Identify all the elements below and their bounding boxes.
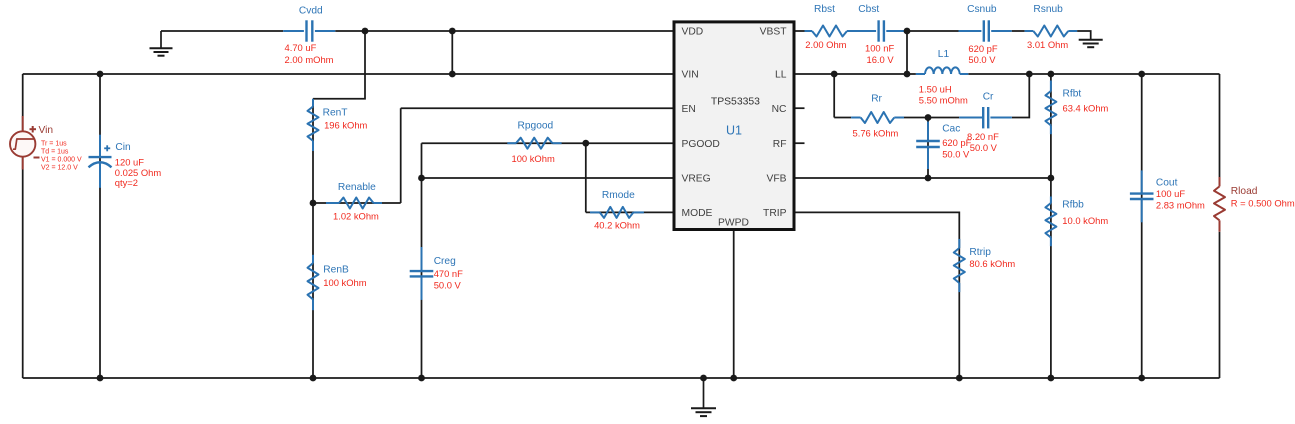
junction at (834.2,74) bbox=[831, 71, 838, 78]
ground bottom center bbox=[703, 378, 705, 408]
wire VBST stub from IC bbox=[796, 30, 805, 32]
wire Cbst-to-LL vertical link bbox=[906, 31, 908, 74]
wire EN riser bbox=[400, 108, 402, 203]
wire black segment between Csnub and Rsnub bbox=[1012, 30, 1025, 32]
wire VBST net black segment after Cbst bbox=[905, 30, 959, 32]
svg-text:Cbst: Cbst bbox=[858, 4, 879, 15]
svg-text:Rtrip: Rtrip bbox=[969, 247, 991, 258]
junction at (100,378) bbox=[97, 375, 104, 382]
svg-text:V1 = 0.000 V: V1 = 0.000 V bbox=[41, 156, 82, 163]
svg-text:3.01 Ohm: 3.01 Ohm bbox=[1027, 39, 1068, 50]
svg-text:Tr = 1us: Tr = 1us bbox=[41, 141, 67, 148]
svg-text:qty=2: qty=2 bbox=[115, 177, 138, 188]
svg-text:Csnub: Csnub bbox=[967, 4, 997, 15]
wire RF stub bbox=[796, 142, 805, 144]
resistor Rload bbox=[1219, 177, 1221, 186]
svg-text:50.0 V: 50.0 V bbox=[970, 142, 998, 153]
wire Rr row middle black bbox=[904, 117, 959, 119]
wire NC stub bbox=[796, 107, 805, 109]
svg-text:Cac: Cac bbox=[942, 124, 960, 135]
capacitor Cvdd bbox=[283, 30, 304, 32]
resistor Rbst bbox=[805, 30, 813, 32]
capacitor Cr bbox=[959, 117, 982, 119]
svg-text:L1: L1 bbox=[938, 49, 950, 60]
svg-text:VIN: VIN bbox=[682, 70, 699, 81]
junction at (1029.3,74) bbox=[1026, 71, 1033, 78]
resistor Rmode bbox=[590, 211, 600, 213]
svg-text:196 kOhm: 196 kOhm bbox=[324, 120, 367, 131]
svg-text:50.0 V: 50.0 V bbox=[942, 148, 970, 159]
voltage source Vin bbox=[22, 116, 24, 131]
wire ground bottom rail bbox=[23, 377, 1220, 379]
wire Creg branch vertical bbox=[421, 143, 423, 378]
svg-text:Cr: Cr bbox=[983, 92, 994, 103]
wire Rload right branch lower bbox=[1219, 232, 1221, 378]
svg-text:RF: RF bbox=[773, 139, 787, 150]
capacitor Cbst bbox=[886, 30, 905, 32]
svg-text:VDD: VDD bbox=[682, 27, 704, 38]
resistor Rtrip bbox=[958, 239, 960, 248]
svg-text:VFB: VFB bbox=[766, 174, 786, 185]
capacitor Creg bbox=[421, 247, 423, 271]
svg-text:50.0 V: 50.0 V bbox=[968, 54, 996, 65]
wire Rmode riser bbox=[585, 143, 587, 212]
junction at (1050.9,378) bbox=[1048, 375, 1055, 382]
svg-text:100 kOhm: 100 kOhm bbox=[512, 153, 555, 164]
junction at (928,178) bbox=[925, 175, 932, 182]
wire Rfbt/Rfbb branch vertical bbox=[1050, 74, 1052, 378]
wire Cin branch vertical bbox=[99, 74, 101, 378]
svg-text:RenB: RenB bbox=[323, 264, 349, 275]
resistor RenB bbox=[312, 255, 314, 263]
svg-text:U1: U1 bbox=[726, 123, 742, 137]
svg-text:R = 0.500 Ohm: R = 0.500 Ohm bbox=[1231, 198, 1295, 209]
junction at (1141.7,74) bbox=[1138, 71, 1145, 78]
wire PWPD drop to ground rail bbox=[733, 231, 735, 378]
svg-text:V2 = 12.0 V: V2 = 12.0 V bbox=[41, 164, 78, 171]
svg-text:470 nF: 470 nF bbox=[434, 268, 463, 279]
resistor Renable bbox=[326, 202, 339, 204]
wire EN net to IC bbox=[401, 107, 673, 109]
resistor Rfbb bbox=[1050, 197, 1052, 204]
svg-text:Rr: Rr bbox=[871, 93, 882, 104]
junction at (907,31) bbox=[904, 28, 911, 35]
wire Rload right branch upper bbox=[1219, 74, 1221, 177]
label Vin minus sign bbox=[34, 157, 40, 159]
wire TRIP net with corner down to Rtrip bbox=[796, 212, 960, 378]
junction at (365,31) bbox=[362, 28, 369, 35]
wire LL net rail right of L1 bbox=[968, 73, 1219, 75]
wire VFB net rail bbox=[796, 177, 1051, 179]
svg-text:EN: EN bbox=[682, 104, 696, 115]
svg-text:PGOOD: PGOOD bbox=[682, 139, 720, 150]
svg-text:40.2 kOhm: 40.2 kOhm bbox=[594, 220, 640, 231]
junction at (585.8,143.2) bbox=[582, 140, 589, 147]
svg-text:2.83 mOhm: 2.83 mOhm bbox=[1156, 199, 1205, 210]
svg-text:620 pF: 620 pF bbox=[942, 137, 971, 148]
wire Cr to riser and up to LL rail bbox=[1012, 74, 1029, 118]
resistor Rpgood bbox=[507, 142, 516, 144]
label Vin plus sign bbox=[30, 128, 37, 130]
svg-text:620 pF: 620 pF bbox=[968, 43, 997, 54]
svg-text:5.76 kOhm: 5.76 kOhm bbox=[853, 128, 899, 139]
wire RenT drop from VDD rail with jog bbox=[313, 31, 365, 99]
resistor Rfbt bbox=[1050, 81, 1052, 92]
svg-text:Td = 1us: Td = 1us bbox=[41, 149, 69, 156]
svg-text:1.50 uH: 1.50 uH bbox=[919, 84, 952, 95]
resistor Rsnub bbox=[1025, 30, 1034, 32]
svg-text:120 uF: 120 uF bbox=[115, 157, 144, 168]
svg-text:63.4 kOhm: 63.4 kOhm bbox=[1063, 103, 1109, 114]
wire VDD-to-VIN vertical link bbox=[451, 31, 453, 74]
svg-text:2.00 mOhm: 2.00 mOhm bbox=[285, 54, 334, 65]
svg-text:8.20 nF: 8.20 nF bbox=[967, 131, 999, 142]
junction at (907,74) bbox=[904, 71, 911, 78]
wire MODE net to IC bbox=[586, 211, 673, 213]
wire from Rsnub to ground bbox=[1077, 31, 1091, 40]
svg-text:TPS53353: TPS53353 bbox=[711, 97, 760, 108]
wire Rr drop from LL rail bbox=[833, 74, 835, 118]
capacitor Csnub bbox=[959, 30, 982, 32]
svg-text:Rfbb: Rfbb bbox=[1062, 199, 1084, 210]
junction at (421.5,378) bbox=[418, 375, 425, 382]
svg-text:VREG: VREG bbox=[682, 174, 711, 185]
svg-text:Renable: Renable bbox=[338, 182, 376, 193]
svg-text:Cvdd: Cvdd bbox=[299, 6, 323, 17]
svg-text:1.02 kOhm: 1.02 kOhm bbox=[333, 210, 379, 221]
junction at (452.3,31) bbox=[449, 28, 456, 35]
junction at (1050.9,178) bbox=[1048, 175, 1055, 182]
svg-text:Rfbt: Rfbt bbox=[1063, 89, 1082, 100]
resistor RenT bbox=[312, 99, 314, 107]
svg-text:Vin: Vin bbox=[39, 125, 54, 136]
svg-text:2.00 Ohm: 2.00 Ohm bbox=[805, 39, 846, 50]
wire left source branch vertical bbox=[22, 74, 24, 378]
junction at (1050.9,74) bbox=[1048, 71, 1055, 78]
svg-text:16.0 V: 16.0 V bbox=[867, 54, 895, 65]
junction at (703.5,378) bbox=[700, 375, 707, 382]
ground top-right after Rsnub bbox=[1079, 39, 1103, 41]
svg-text:Rmode: Rmode bbox=[602, 190, 635, 201]
capacitor Cac bbox=[927, 122, 929, 140]
wire Cac branch vertical bbox=[927, 118, 929, 179]
svg-text:80.6 kOhm: 80.6 kOhm bbox=[969, 258, 1015, 269]
junction at (313,378) bbox=[310, 375, 317, 382]
wire VREG net horizontal bbox=[422, 177, 673, 179]
svg-text:MODE: MODE bbox=[682, 208, 713, 219]
ground top-left bbox=[160, 31, 162, 48]
junction at (100,74) bbox=[97, 71, 104, 78]
wire Cout branch vertical bbox=[1141, 74, 1143, 378]
svg-text:50.0 V: 50.0 V bbox=[434, 279, 462, 290]
svg-text:Cin: Cin bbox=[115, 142, 130, 153]
junction at (1141.7,378) bbox=[1138, 375, 1145, 382]
svg-text:100 uF: 100 uF bbox=[1156, 188, 1185, 199]
junction at (733.7,378) bbox=[730, 375, 737, 382]
svg-text:LL: LL bbox=[775, 70, 787, 81]
svg-text:100 nF: 100 nF bbox=[865, 42, 894, 53]
wire Renable row bbox=[313, 202, 401, 204]
svg-text:PWPD: PWPD bbox=[718, 218, 749, 229]
svg-text:10.0 kOhm: 10.0 kOhm bbox=[1062, 215, 1108, 226]
wire VDD net top rail right of Cvdd bbox=[335, 30, 672, 32]
svg-text:5.50 mOhm: 5.50 mOhm bbox=[919, 95, 968, 106]
wire LL net rail left of L1 bbox=[796, 73, 916, 75]
junction at (959.3,378) bbox=[956, 375, 963, 382]
junction at (421.5,178) bbox=[418, 175, 425, 182]
svg-text:4.70 uF: 4.70 uF bbox=[285, 42, 317, 53]
junction at (313,203) bbox=[310, 200, 317, 207]
svg-text:VBST: VBST bbox=[760, 27, 788, 38]
capacitor Cin bbox=[99, 135, 101, 157]
svg-text:RenT: RenT bbox=[323, 108, 348, 119]
svg-text:Rpgood: Rpgood bbox=[518, 121, 554, 132]
svg-text:Creg: Creg bbox=[434, 256, 456, 267]
svg-text:TRIP: TRIP bbox=[763, 208, 787, 219]
svg-text:NC: NC bbox=[772, 104, 787, 115]
svg-text:Cout: Cout bbox=[1156, 177, 1178, 188]
junction at (928,117.5) bbox=[925, 114, 932, 121]
IC U1 TPS53353 body bbox=[674, 22, 794, 230]
resistor Rr bbox=[851, 117, 861, 119]
svg-text:Rload: Rload bbox=[1231, 186, 1258, 197]
wire Rr row left black bbox=[834, 117, 851, 119]
svg-text:Rsnub: Rsnub bbox=[1033, 4, 1063, 15]
inductor L1 bbox=[916, 73, 925, 75]
junction at (452.3,74) bbox=[449, 71, 456, 78]
wire RenT/RenB branch vertical bbox=[312, 99, 314, 378]
capacitor Cout bbox=[1141, 170, 1143, 193]
wire PGOOD net horizontal bbox=[422, 142, 673, 144]
svg-text:100 kOhm: 100 kOhm bbox=[323, 277, 366, 288]
wire VDD net top rail left of Cvdd bbox=[161, 30, 283, 32]
wire VIN net rail bbox=[23, 73, 673, 75]
svg-text:Rbst: Rbst bbox=[814, 4, 835, 15]
